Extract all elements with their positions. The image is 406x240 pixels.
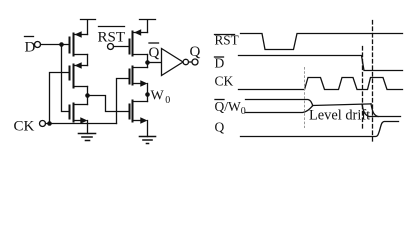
D̄ waveform: [239, 56, 403, 71]
wire CK up to M5 gate: [117, 79, 130, 124]
input terminal RST̄: [99, 27, 125, 50]
VDD rail 2: [140, 20, 156, 33]
dotted marker at first CK edge: [304, 68, 306, 128]
svg-text:Level drift: Level drift: [309, 108, 370, 124]
CK waveform: [239, 78, 403, 90]
transistor M3 (NMOS, gate D̄): [70, 104, 88, 124]
wire n1 down to M6 gate: [88, 96, 130, 112]
output terminal Q: [192, 59, 198, 65]
wire D̄ down to M3 gate: [62, 45, 70, 112]
RST waveform: [241, 34, 403, 50]
node D̄ branch junction dot: [59, 42, 64, 47]
op-amp style inverter U1: [162, 49, 189, 76]
input terminal D̄: [25, 37, 41, 48]
wire M2 to node n1: [87, 87, 89, 105]
Q̄ falling curve: [362, 104, 369, 116]
label Q row: [215, 120, 225, 135]
label Q̄/W0 row: [215, 99, 246, 117]
label CK row: [215, 74, 234, 89]
node W0 junction dot: [145, 92, 150, 97]
wire M6 source to ground: [147, 121, 149, 137]
transistor M6 (NMOS, gate n1): [130, 101, 148, 124]
input terminal CK: [40, 121, 46, 127]
svg-text:D: D: [25, 40, 36, 56]
wire Q̄ to inverter input: [148, 62, 162, 64]
transistor M1 (PMOS, gate D̄): [70, 31, 88, 55]
wire CK horizontal: [46, 123, 117, 125]
node Q̄ junction dot: [145, 60, 150, 65]
wire M4 drain to node Q̄: [147, 55, 149, 68]
node CK branch junction dot: [47, 121, 52, 126]
annotation Level drift: [309, 108, 370, 124]
svg-text:Q: Q: [190, 44, 201, 60]
svg-text:Q: Q: [149, 45, 160, 61]
dashed marker at sampling CK edge: [372, 21, 374, 144]
svg-text:RST: RST: [98, 30, 126, 46]
ground 2: [140, 137, 156, 144]
Q̄/W0 low level: [369, 116, 401, 118]
wire RST̄ to M4 gate: [114, 46, 130, 48]
merged Q̄/W0 drifting level: [313, 104, 372, 106]
label RST̄ row: [215, 33, 239, 48]
Q̄ waveform high segment: [246, 100, 313, 106]
wire CK up to M2 gate: [50, 73, 70, 124]
wire M3 source to ground: [87, 121, 89, 134]
wire inverter output to Q terminal: [189, 61, 193, 63]
wire M5 source to node W0: [147, 84, 149, 102]
label D̄ row: [215, 56, 225, 71]
svg-text:CK: CK: [215, 74, 234, 89]
transistor M5 (NMOS, gate CK): [130, 67, 148, 87]
Q waveform: [241, 122, 399, 137]
transistor M4 (PMOS, gate RST̄): [130, 29, 148, 55]
svg-text:Q: Q: [215, 120, 225, 135]
wire M1 drain to M2 source: [87, 55, 89, 66]
label Q̄: [149, 43, 160, 61]
node n1 junction dot: [85, 93, 90, 98]
dashed marker at D̄ fall: [362, 47, 364, 129]
svg-text:D: D: [215, 56, 225, 71]
transistor M2 (PMOS, gate CK): [70, 62, 88, 87]
wire D̄ to M1 gate: [41, 44, 70, 46]
VDD rail 1: [81, 20, 96, 35]
W0 waveform high segment: [246, 106, 313, 113]
ground 1: [79, 134, 96, 141]
W0 falling curve: [371, 104, 378, 117]
svg-text:CK: CK: [14, 119, 35, 135]
